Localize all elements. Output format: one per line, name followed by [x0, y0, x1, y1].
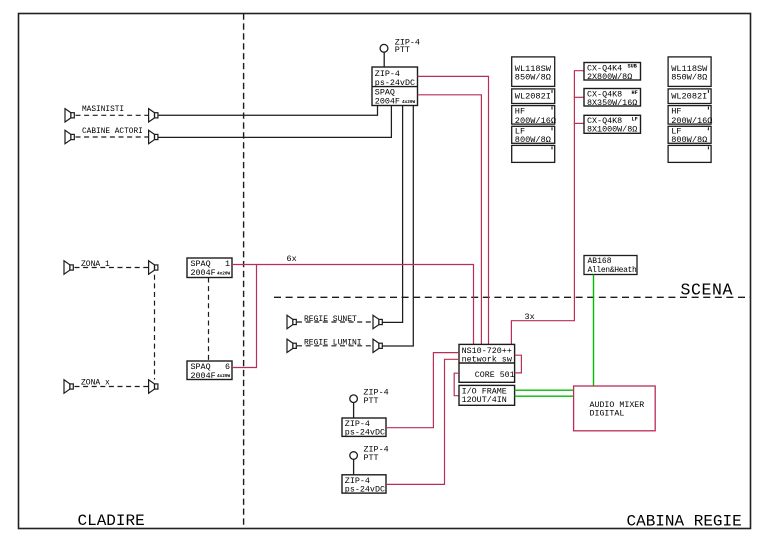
- svg-text:4x20W: 4x20W: [217, 271, 231, 276]
- dashed link SPAQ #1 to SPAQ #6: [208, 278, 210, 362]
- svg-text:ps-24vDC: ps-24vDC: [345, 484, 385, 494]
- wire MASINISTI speaker to SPAQ out1: [158, 106, 378, 116]
- svg-text:SCENA: SCENA: [681, 281, 734, 300]
- dashed wire ZONA 1 pair: [75, 267, 149, 269]
- svg-text:200W/16Ω: 200W/16Ω: [515, 116, 556, 126]
- stage box AB168 Allen&Heath: [584, 256, 637, 276]
- zone separator: horizontal dashed line SCENA: [274, 296, 751, 298]
- svg-text:1: 1: [225, 259, 230, 269]
- wire (red) regie ZIP-4 #1 to network switch: [386, 353, 459, 428]
- svg-text:2X800W/8Ω: 2X800W/8Ω: [587, 72, 632, 82]
- speaker ZONA 1 (wall): [64, 261, 73, 274]
- mixer AUDIO MIXER DIGITAL: [574, 386, 656, 431]
- dashed wire ZONA 1 to ZONA x chain: [154, 275, 156, 380]
- svg-text:CABINA REGIE: CABINA REGIE: [627, 513, 742, 531]
- microphone ZIP-4 PTT (regie 1): [350, 395, 358, 418]
- svg-text:LF: LF: [632, 117, 638, 123]
- speaker REGIE SUNET (regie): [373, 315, 382, 328]
- I/O frame 12OUT/4IN: [459, 385, 515, 405]
- svg-text:850W/8Ω: 850W/8Ω: [671, 72, 707, 82]
- box ZIP-4 ps-24vDC / SPAQ 2004F (top unit): [372, 67, 418, 106]
- speaker stack right: empty section: [668, 145, 711, 162]
- wire (red) network sw to CORE 501: [515, 355, 522, 373]
- speaker CABINE ACTORI (stage): [149, 130, 158, 143]
- microphone ZIP-4 PTT (top): [380, 44, 388, 67]
- wire (red) top ZIP-4 ps to network switch: [418, 76, 489, 344]
- speaker REGIE SUNET (wall): [287, 315, 296, 328]
- speaker ZONA x (wall): [64, 380, 73, 393]
- zone separator: vertical dashed line CLADIRE/rest: [243, 14, 245, 529]
- speaker REGIE LUMINI (regie): [373, 339, 382, 352]
- svg-text:HF: HF: [671, 106, 681, 116]
- svg-text:800W/8Ω: 800W/8Ω: [515, 135, 551, 145]
- amplifier SPAQ 2004F #1: [187, 258, 232, 278]
- svg-text:8X1000W/8Ω: 8X1000W/8Ω: [587, 125, 637, 135]
- label ZIP-4 PTT (top): [395, 37, 420, 55]
- network switch NS10-720++: [459, 344, 515, 382]
- dashed wire ZONA x pair: [75, 386, 149, 388]
- svg-text:HF: HF: [632, 90, 638, 96]
- DSP CORE 501: [459, 363, 515, 380]
- dashed wire MASINISTI pair: [76, 114, 149, 116]
- amplifier CX-Q4K8 (HF): [584, 89, 641, 108]
- svg-text:2004F: 2004F: [375, 96, 400, 106]
- speaker ZONA x (line): [149, 380, 158, 393]
- dashed wire CABINE ACTORI pair: [76, 136, 149, 138]
- speaker stack right: WL2082I: [668, 89, 711, 104]
- wire REGIE LUMINI speaker to SPAQ out4: [383, 106, 414, 347]
- speaker REGIE LUMINI (wall): [287, 339, 296, 352]
- svg-text:6x: 6x: [287, 254, 297, 264]
- wire (green) AB168 to audio mixer: [593, 275, 595, 387]
- wire (red) top SPAQ to network switch: [418, 95, 482, 345]
- wire (red) amplifier bus 3x to network switch: [511, 71, 584, 345]
- svg-text:2004F: 2004F: [191, 371, 216, 381]
- amplifier CX-Q4K8 (LF): [584, 115, 641, 134]
- wire (red) SPAQ #1 to network switch (6x): [232, 265, 474, 345]
- speaker stack left: WL118SW subwoofer: [512, 57, 555, 87]
- svg-text:4x20W: 4x20W: [217, 374, 231, 379]
- svg-text:PTT: PTT: [364, 396, 379, 406]
- speaker CABINE ACTORI (wall): [65, 130, 74, 143]
- speaker stack left: HF section: [512, 106, 556, 126]
- svg-text:8X350W/16Ω: 8X350W/16Ω: [587, 98, 637, 108]
- svg-text:12OUT/4IN: 12OUT/4IN: [462, 395, 507, 405]
- wire (red) regie ZIP-4 #2 to network switch: [386, 359, 459, 484]
- speaker ZONA 1 (line): [149, 261, 158, 274]
- speaker MASINISTI (wall): [65, 109, 74, 122]
- speaker MASINISTI (stage): [149, 109, 158, 122]
- svg-text:AB168: AB168: [588, 257, 612, 266]
- dashed wire REGIE SUNET pair: [297, 321, 372, 323]
- wire (red) SPAQ #6 branch to 6x bus: [232, 265, 257, 368]
- svg-text:3x: 3x: [525, 312, 535, 322]
- wire (red) stub to CX-Q4K8 HF: [574, 96, 584, 98]
- svg-text:CLADIRE: CLADIRE: [78, 512, 145, 530]
- svg-text:WL2082I: WL2082I: [515, 92, 551, 102]
- microphone ZIP-4 PTT (regie 2): [350, 452, 358, 475]
- svg-text:HF: HF: [515, 106, 525, 116]
- wire CABINE ACTORI speaker to SPAQ out2: [158, 106, 391, 138]
- box ZIP-4 ps-24vDC (regie 1): [342, 418, 386, 438]
- amplifier CX-Q4K4 (SUB): [584, 63, 641, 82]
- speaker stack right: HF section: [668, 106, 712, 126]
- svg-text:PTT: PTT: [364, 453, 379, 463]
- svg-text:SUB: SUB: [628, 64, 637, 70]
- wire (green) I/O frame to mixer (out): [515, 389, 574, 391]
- wire (red) stub to CX-Q4K8 LF: [574, 122, 584, 124]
- wire (red) CORE 501 to I/O frame: [454, 373, 459, 396]
- svg-text:850W/8Ω: 850W/8Ω: [515, 72, 551, 82]
- svg-text:CABINE ACTORI: CABINE ACTORI: [82, 128, 143, 136]
- label ZIP-4 PTT (regie 1): [364, 388, 389, 407]
- speaker stack left: LF section: [512, 126, 555, 145]
- svg-text:WL2082I: WL2082I: [671, 92, 707, 102]
- wire REGIE SUNET speaker to SPAQ out3: [383, 106, 403, 323]
- speaker stack left: empty section: [512, 145, 555, 162]
- svg-text:Allen&Heath: Allen&Heath: [588, 266, 638, 275]
- speaker stack left: WL2082I: [512, 89, 555, 104]
- svg-text:ps-24vDC: ps-24vDC: [345, 428, 385, 438]
- amplifier SPAQ 2004F #6: [187, 361, 232, 381]
- speaker stack right: WL118SW subwoofer: [668, 57, 711, 87]
- svg-text:PTT: PTT: [395, 45, 410, 55]
- svg-text:200W/16Ω: 200W/16Ω: [671, 116, 712, 126]
- svg-text:2004F: 2004F: [191, 268, 216, 278]
- dashed wire REGIE LUMINI pair: [297, 345, 372, 347]
- svg-text:MASINISTI: MASINISTI: [82, 106, 124, 114]
- svg-text:DIGITAL: DIGITAL: [590, 410, 625, 419]
- svg-text:800W/8Ω: 800W/8Ω: [671, 135, 707, 145]
- box ZIP-4 ps-24vDC (regie 2): [342, 475, 386, 495]
- svg-text:4x20W: 4x20W: [402, 100, 416, 105]
- label ZIP-4 PTT (regie 2): [364, 444, 389, 463]
- speaker stack right: LF section: [668, 126, 711, 145]
- svg-text:6: 6: [225, 362, 230, 372]
- svg-text:CORE 501: CORE 501: [475, 371, 515, 380]
- wire (green) I/O frame to mixer (in): [515, 395, 574, 397]
